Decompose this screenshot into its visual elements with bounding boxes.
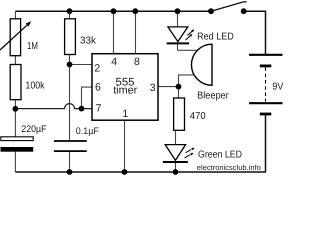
svg-text:6: 6 bbox=[95, 81, 101, 93]
svg-text:470: 470 bbox=[190, 111, 206, 122]
svg-text:9V: 9V bbox=[272, 81, 283, 92]
svg-text:Red LED: Red LED bbox=[197, 31, 234, 42]
svg-text:1: 1 bbox=[122, 108, 128, 120]
svg-text:33k: 33k bbox=[80, 35, 97, 46]
svg-text:2: 2 bbox=[94, 62, 100, 74]
svg-text:timer: timer bbox=[113, 84, 137, 96]
svg-text:7: 7 bbox=[96, 102, 102, 114]
svg-text:100k: 100k bbox=[25, 80, 45, 91]
svg-text:220µF: 220µF bbox=[21, 124, 46, 135]
svg-text:3: 3 bbox=[150, 82, 156, 94]
svg-text:Green LED: Green LED bbox=[198, 150, 242, 161]
svg-text:4: 4 bbox=[111, 56, 117, 68]
svg-text:8: 8 bbox=[134, 56, 140, 68]
svg-text:electronicsclub.info: electronicsclub.info bbox=[197, 163, 261, 172]
svg-text:0.1µF: 0.1µF bbox=[76, 126, 99, 137]
svg-text:Bleeper: Bleeper bbox=[197, 90, 229, 101]
svg-text:1M: 1M bbox=[27, 41, 38, 52]
